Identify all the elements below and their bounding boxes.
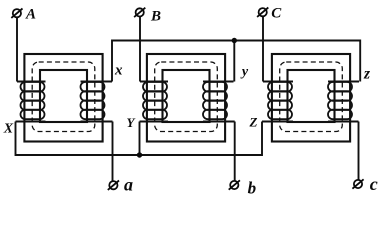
svg-text:a: a [124, 175, 133, 195]
svg-text:X: X [3, 121, 14, 136]
svg-text:C: C [271, 5, 282, 21]
svg-text:A: A [25, 6, 36, 22]
svg-text:z: z [363, 66, 370, 83]
svg-text:Y: Y [127, 115, 136, 130]
svg-text:x: x [114, 63, 123, 79]
svg-text:b: b [248, 178, 257, 197]
svg-text:B: B [150, 9, 161, 25]
svg-text:Z: Z [249, 115, 258, 130]
svg-text:c: c [370, 174, 378, 194]
svg-text:y: y [240, 65, 249, 80]
